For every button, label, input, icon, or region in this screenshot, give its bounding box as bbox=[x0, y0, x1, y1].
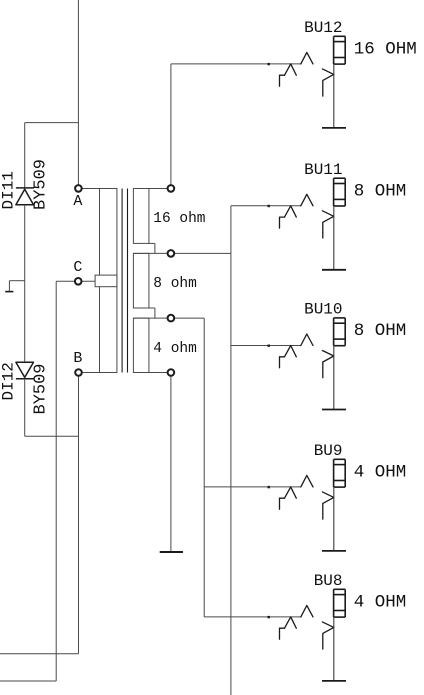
svg-text:16 OHM: 16 OHM bbox=[354, 40, 417, 60]
svg-text:BU11: BU11 bbox=[304, 161, 342, 179]
wire from node C left bbox=[56, 280, 78, 282]
node 16 ohm top bbox=[168, 185, 175, 192]
wire node C to tap bbox=[78, 280, 95, 282]
svg-text:4 OHM: 4 OHM bbox=[354, 463, 407, 483]
ground (BU10) bbox=[322, 409, 346, 411]
diode DI12 bbox=[16, 362, 34, 378]
wire C net down bbox=[55, 281, 57, 681]
ground (BU12) bbox=[322, 127, 346, 129]
tap step 16/8 bbox=[149, 243, 155, 253]
connector BU9 bbox=[280, 459, 346, 551]
junction dot bbox=[268, 63, 270, 65]
wire branch to diodes bbox=[25, 122, 79, 124]
wire node B to primary bbox=[79, 372, 100, 374]
node winding common bbox=[168, 369, 175, 376]
ground (transformer common) bbox=[160, 551, 183, 553]
wire 8 ohm vertical branch bbox=[230, 206, 232, 695]
transformer core bbox=[122, 189, 127, 373]
svg-text:BU8: BU8 bbox=[314, 572, 343, 590]
svg-text:8 OHM: 8 OHM bbox=[354, 321, 407, 341]
wire BU8 feed bbox=[204, 616, 301, 618]
wire exit left (B net) bbox=[0, 653, 79, 655]
transformer secondary 4 ohm section bbox=[133, 318, 149, 372]
svg-text:BU10: BU10 bbox=[304, 301, 342, 319]
svg-text:B: B bbox=[73, 350, 82, 367]
wire secondary top to node bbox=[149, 188, 171, 190]
svg-text:BY509: BY509 bbox=[32, 159, 51, 210]
svg-text:C: C bbox=[73, 259, 82, 276]
node B bbox=[75, 369, 82, 376]
svg-text:DI12: DI12 bbox=[0, 362, 18, 400]
node A bbox=[75, 185, 82, 192]
transformer secondary 8 ohm section bbox=[133, 253, 149, 308]
node C bbox=[75, 278, 82, 285]
node 8 ohm tap bbox=[168, 250, 175, 257]
svg-text:DI11: DI11 bbox=[0, 171, 18, 209]
connector BU11 bbox=[280, 178, 346, 270]
svg-text:8 OHM: 8 OHM bbox=[354, 181, 407, 201]
wire 8 ohm tap to branch bbox=[133, 252, 231, 254]
svg-text:8 ohm: 8 ohm bbox=[153, 276, 197, 292]
transformer primary winding bbox=[100, 189, 117, 373]
svg-text:BU12: BU12 bbox=[304, 19, 342, 37]
svg-text:4 OHM: 4 OHM bbox=[354, 593, 407, 613]
wire node B down bbox=[78, 373, 80, 654]
wire top vertical to node A bbox=[77, 0, 79, 188]
junction dot bbox=[268, 345, 270, 347]
svg-text:BY509: BY509 bbox=[32, 363, 51, 414]
wire down to DI11 bbox=[24, 123, 26, 188]
transformer secondary 16 ohm section bbox=[133, 189, 149, 244]
svg-text:BU9: BU9 bbox=[314, 442, 343, 460]
svg-text:A: A bbox=[73, 193, 82, 210]
diode DI11 bbox=[16, 188, 34, 205]
wire to node B column bbox=[25, 435, 79, 437]
ground (BU11) bbox=[322, 269, 346, 271]
wire below DI12 bbox=[24, 379, 26, 437]
junction dot bbox=[268, 616, 270, 618]
junction dot bbox=[268, 486, 270, 488]
wire BU10 feed bbox=[231, 345, 301, 347]
wire secondary bottom to node bbox=[149, 372, 171, 374]
transformer primary tap C bbox=[95, 275, 117, 287]
wire node up to BU12 row bbox=[170, 64, 172, 188]
wire 4 ohm vertical branch bbox=[203, 318, 205, 617]
wire node A to primary bbox=[78, 188, 99, 190]
ground (BU9) bbox=[322, 550, 346, 552]
wire DI11 to DI12 bbox=[24, 205, 26, 362]
connector BU10 bbox=[280, 318, 346, 410]
svg-text:4 ohm: 4 ohm bbox=[153, 341, 197, 357]
wire BU9 feed bbox=[204, 486, 301, 488]
wire bottom node down bbox=[170, 373, 172, 553]
connector BU12 bbox=[280, 36, 346, 128]
junction dot bbox=[268, 205, 270, 207]
wire BU11 feed bbox=[231, 205, 301, 207]
connector BU8 bbox=[280, 589, 346, 681]
ground (diode midpoint) bbox=[5, 281, 25, 292]
node 4 ohm tap bbox=[168, 315, 175, 322]
wire BU12 feed bbox=[171, 63, 301, 65]
ground (BU8) bbox=[322, 680, 346, 682]
wire exit left (C net) bbox=[0, 680, 56, 682]
wire 4 ohm tap to branch bbox=[133, 317, 204, 319]
svg-text:16 ohm: 16 ohm bbox=[153, 211, 205, 227]
tap step 8/4 bbox=[149, 308, 155, 318]
